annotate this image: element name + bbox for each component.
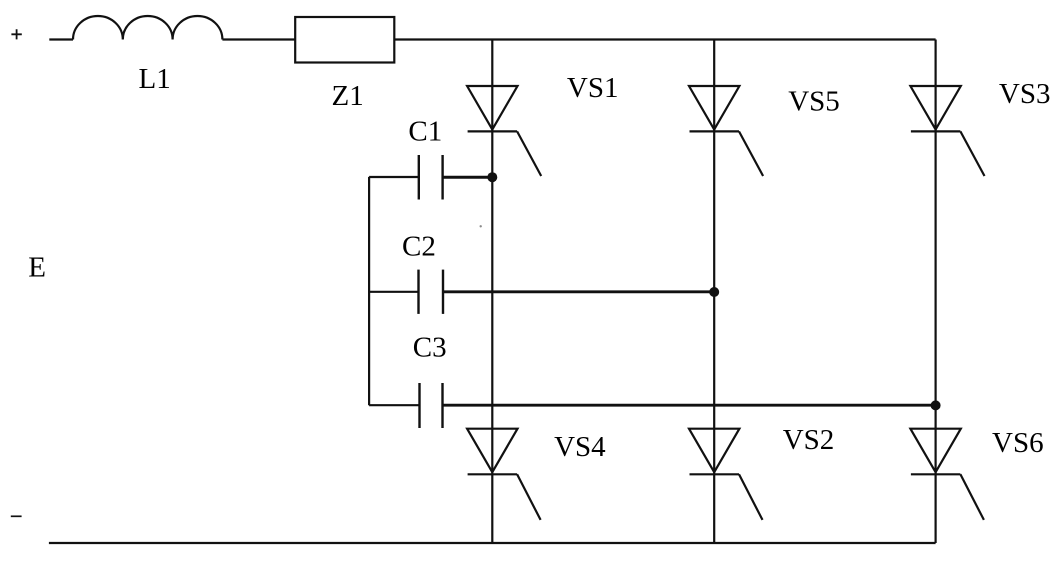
inductor L1 — [73, 16, 222, 40]
thyristor VS3 — [910, 86, 984, 176]
node junction dot C3/VS3 — [931, 400, 941, 410]
wire — [394, 38, 935, 40]
svg-text:E: E — [28, 251, 46, 283]
svg-text:C1: C1 — [408, 115, 442, 147]
svg-text:L1: L1 — [139, 63, 171, 95]
wire — [713, 40, 715, 544]
svg-text:VS4: VS4 — [554, 431, 606, 463]
thyristor VS4 — [467, 429, 540, 520]
wire — [49, 542, 936, 544]
capacitor C2 — [369, 270, 714, 314]
svg-text:C3: C3 — [413, 331, 447, 363]
svg-text:VS1: VS1 — [567, 72, 619, 104]
thyristor VS6 — [910, 429, 984, 520]
svg-text:VS3: VS3 — [999, 78, 1051, 110]
wire — [491, 40, 493, 544]
stray ink speck — [480, 225, 482, 227]
wire — [222, 38, 295, 40]
impedance Z1 — [295, 17, 394, 63]
capacitor C3 — [369, 383, 936, 428]
svg-text:VS2: VS2 — [783, 424, 835, 456]
plus terminal — [11, 29, 21, 39]
capacitor C1 — [369, 155, 492, 200]
node junction dot C1/VS1 — [487, 172, 497, 182]
wire — [368, 177, 370, 405]
svg-text:C2: C2 — [402, 231, 436, 263]
thyristor VS5 — [689, 86, 763, 176]
wire — [934, 40, 936, 544]
svg-text:VS5: VS5 — [788, 86, 840, 118]
svg-text:VS6: VS6 — [992, 427, 1044, 459]
minus terminal — [11, 515, 22, 517]
wire — [49, 38, 73, 40]
node junction dot C2/VS5 — [709, 287, 719, 297]
thyristor VS1 — [467, 86, 541, 176]
svg-text:Z1: Z1 — [332, 80, 364, 112]
thyristor VS2 — [689, 429, 763, 520]
